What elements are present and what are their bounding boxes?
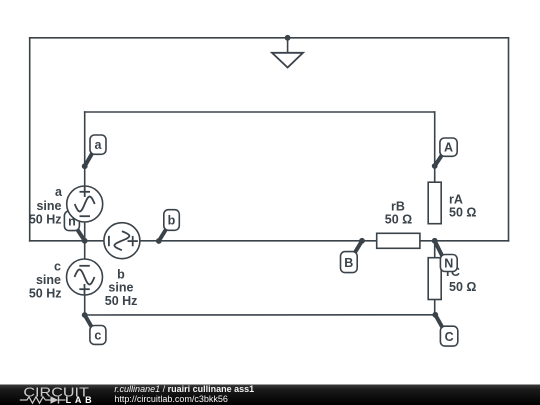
junction node c bbox=[82, 312, 88, 318]
svg-text:N: N bbox=[444, 257, 453, 271]
svg-text:a: a bbox=[55, 185, 63, 199]
svg-text:rA: rA bbox=[449, 192, 463, 206]
resistor rC bbox=[428, 258, 441, 300]
wire source c bottom to node c bbox=[84, 295, 86, 315]
wire node N to rC bbox=[434, 241, 436, 258]
svg-text:http://circuitlab.com/c3bkk56: http://circuitlab.com/c3bkk56 bbox=[114, 394, 228, 404]
svg-text:50 Hz: 50 Hz bbox=[29, 213, 62, 227]
wire inner top bbox=[85, 111, 435, 113]
node a bbox=[85, 135, 106, 166]
wire node n to source b left bbox=[85, 240, 104, 242]
junction node A bbox=[432, 163, 438, 169]
wire ground stub bbox=[287, 38, 289, 53]
junction node n bbox=[82, 238, 88, 244]
svg-text:50 Ω: 50 Ω bbox=[385, 213, 412, 227]
voltage source c bbox=[67, 259, 103, 295]
junction ground bbox=[285, 35, 291, 41]
node B bbox=[341, 241, 363, 273]
wire right outer bbox=[508, 38, 510, 241]
svg-text:50 Hz: 50 Hz bbox=[29, 287, 62, 301]
node n bbox=[64, 211, 84, 241]
svg-text:b: b bbox=[168, 214, 176, 228]
node N bbox=[435, 241, 457, 272]
value label rC bbox=[446, 265, 476, 294]
junction node b bbox=[156, 238, 162, 244]
node A bbox=[435, 138, 457, 166]
svg-text:50 Ω: 50 Ω bbox=[449, 280, 476, 294]
wire node n to source c top bbox=[84, 241, 86, 259]
resistor rB bbox=[377, 233, 420, 248]
logo resistor-diode symbol bbox=[20, 396, 66, 403]
value label source c bbox=[29, 260, 62, 301]
wire inner right drop to rA bbox=[434, 112, 436, 182]
node C bbox=[435, 315, 458, 346]
voltage source a bbox=[67, 186, 103, 222]
value label source a bbox=[29, 185, 63, 227]
svg-text:r.cullinane1 / ruairi cullinan: r.cullinane1 / ruairi cullinane ass1 bbox=[114, 384, 254, 394]
junction node N bbox=[432, 238, 438, 244]
svg-text:50 Ω: 50 Ω bbox=[449, 206, 476, 220]
wire source a bottom to node n bbox=[84, 222, 86, 241]
svg-text:50 Hz: 50 Hz bbox=[105, 294, 138, 308]
svg-text:B: B bbox=[344, 256, 353, 270]
svg-text:rB: rB bbox=[391, 199, 405, 213]
wire bottom from node c to node C bbox=[85, 314, 436, 316]
resistor rA bbox=[428, 182, 441, 224]
wire inner left drop to source a bbox=[84, 112, 86, 186]
node b bbox=[159, 210, 180, 241]
junction node C bbox=[432, 312, 438, 318]
value label rA bbox=[449, 192, 476, 219]
svg-text:A: A bbox=[444, 141, 453, 155]
node c bbox=[85, 315, 106, 344]
svg-text:C: C bbox=[445, 330, 454, 344]
junction node B bbox=[359, 238, 365, 244]
wire top outer bbox=[30, 37, 509, 39]
ground bbox=[272, 53, 303, 68]
wire left bottom horizontal to node n bbox=[30, 240, 85, 242]
junction node a bbox=[82, 163, 88, 169]
wire rB to node N bbox=[420, 240, 435, 242]
svg-text:LAB: LAB bbox=[66, 395, 93, 405]
value label rB bbox=[385, 199, 412, 226]
value label source b bbox=[105, 268, 138, 309]
svg-text:a: a bbox=[95, 138, 103, 152]
svg-text:sine: sine bbox=[108, 280, 133, 294]
svg-text:c: c bbox=[54, 260, 61, 274]
footer bar bbox=[0, 385, 540, 405]
voltage source b bbox=[104, 223, 140, 259]
svg-text:sine: sine bbox=[36, 273, 61, 287]
wire right horizontal to node N bbox=[435, 240, 509, 242]
svg-text:c: c bbox=[94, 329, 101, 343]
wire left outer bbox=[29, 38, 31, 241]
svg-text:sine: sine bbox=[36, 199, 61, 213]
wire node B to rB bbox=[362, 240, 377, 242]
wire rC to node C bbox=[434, 300, 436, 315]
wire source b right to node B bbox=[140, 240, 362, 242]
